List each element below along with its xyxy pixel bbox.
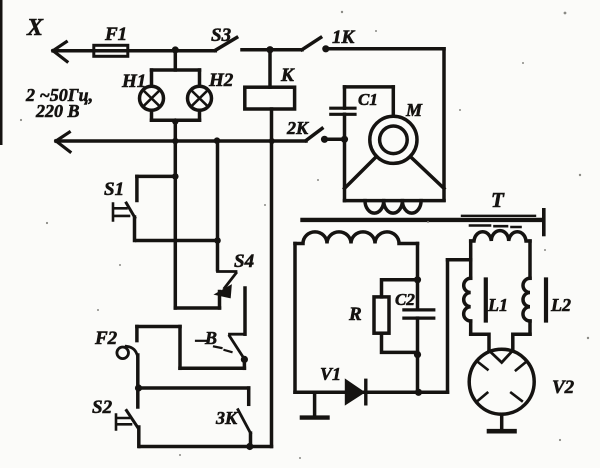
svg-text:С2: С2 [395,290,415,309]
svg-text:V2: V2 [552,377,575,398]
svg-text:К: К [280,65,295,86]
svg-text:S2: S2 [92,397,113,418]
svg-text:V1: V1 [320,364,341,384]
svg-text:S4: S4 [234,251,254,272]
svg-text:1К: 1К [332,27,356,48]
svg-text:В: В [204,328,217,348]
svg-text:F1: F1 [104,24,127,45]
svg-text:Т: Т [491,188,505,212]
svg-text:М: М [405,100,423,120]
svg-text:С1: С1 [358,90,378,109]
svg-text:R: R [348,304,362,325]
svg-text:Н1: Н1 [121,71,146,92]
svg-text:S1: S1 [104,179,124,200]
svg-text:Н2: Н2 [208,70,234,91]
svg-text:L1: L1 [487,295,508,315]
svg-text:2К: 2К [286,118,310,138]
svg-text:L2: L2 [550,295,571,315]
svg-text:S3: S3 [211,25,231,46]
svg-text:X: X [26,15,44,41]
svg-text:F2: F2 [94,328,118,349]
svg-text:220 В: 220 В [35,101,80,121]
svg-text:3К: 3К [215,408,239,428]
